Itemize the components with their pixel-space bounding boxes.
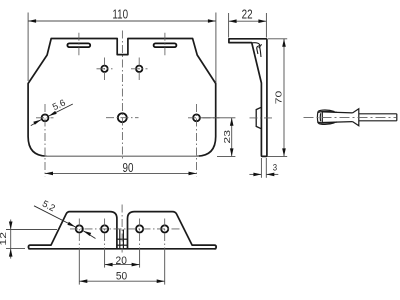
svg-text:50: 50	[116, 270, 127, 283]
svg-text:12: 12	[0, 232, 8, 246]
small hole right of notch	[136, 66, 142, 72]
outer contour	[229, 39, 267, 157]
leader 5.2	[34, 206, 96, 239]
dimension 22	[229, 13, 267, 38]
main vertical centerline	[121, 31, 123, 161]
dimension 12	[6, 220, 57, 259]
bottom edge	[28, 248, 216, 250]
svg-text:5.6: 5.6	[50, 97, 66, 112]
slot 1 centerline	[78, 33, 80, 57]
svg-text:3: 3	[273, 162, 278, 173]
dimension 110	[28, 13, 216, 84]
small hole centerlines	[104, 58, 106, 81]
hole 5.6 left	[42, 114, 49, 121]
slot hole right	[154, 43, 177, 47]
bend gusset detail	[252, 43, 261, 57]
svg-text:90: 90	[123, 162, 134, 175]
center tab between humps	[117, 230, 127, 249]
hole right	[193, 114, 200, 121]
hole row horizontal centerlines	[36, 117, 54, 119]
rivet centerline	[304, 116, 397, 118]
hole center	[118, 113, 127, 122]
svg-text:23: 23	[224, 130, 233, 144]
hole vertical centerline + ext to 90 dim	[44, 104, 46, 177]
small hole left of notch	[101, 66, 107, 72]
right hump + right flange	[128, 212, 217, 249]
plate outline with top notch	[28, 39, 216, 157]
bottom view holes	[76, 225, 83, 232]
emboss on web	[256, 107, 261, 129]
dimension 23	[201, 118, 235, 157]
dimension 70	[268, 39, 288, 157]
left flange + left hump	[28, 212, 117, 249]
svg-text:20: 20	[116, 255, 127, 268]
dimension 90	[45, 172, 197, 174]
slot 2 centerline	[164, 33, 166, 57]
svg-text:70: 70	[275, 91, 284, 105]
centerlines front view	[36, 31, 220, 177]
side view hole centerline	[250, 117, 274, 119]
body	[322, 112, 352, 113]
countersunk head	[353, 109, 359, 126]
slot hole left	[67, 43, 90, 47]
centerlines bottom view	[70, 205, 180, 253]
dimension 20	[105, 264, 140, 266]
leader 5.6	[31, 104, 73, 126]
svg-text:22: 22	[242, 9, 253, 22]
mandrel	[359, 113, 397, 115]
front view bottom edge (light)	[45, 155, 200, 157]
svg-text:110: 110	[112, 8, 128, 21]
splayed petals	[318, 110, 334, 112]
dimension 3	[249, 158, 278, 178]
dimension 50	[79, 280, 164, 282]
